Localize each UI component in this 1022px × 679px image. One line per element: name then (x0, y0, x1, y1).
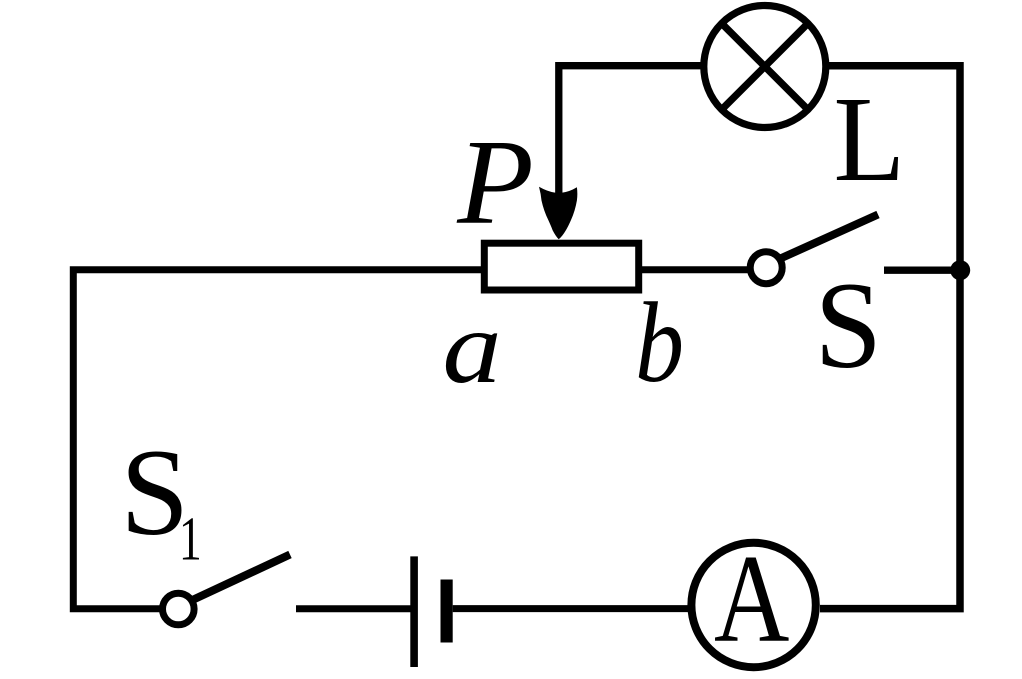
lamp L (circle with X) (704, 6, 826, 128)
junction node dot on right vertical wire (950, 260, 970, 280)
wire from lamp left terminal to slider arrow (top-left corner) (559, 66, 701, 205)
svg-text:a: a (442, 290, 501, 406)
ammeter A (circle) (691, 543, 815, 667)
svg-text:S: S (815, 257, 883, 394)
svg-text:1: 1 (179, 504, 202, 573)
switch S blade (782, 215, 879, 259)
wire from rheostat terminal b to switch S hinge (642, 266, 748, 273)
switch S hinge circle (750, 252, 782, 284)
svg-text:A: A (714, 530, 789, 669)
svg-text:L: L (834, 72, 906, 206)
wire from rheostat terminal a to left side and down to switch S1 (73, 270, 481, 609)
battery long plate (positive) (410, 556, 418, 667)
slider arrowhead of rheostat (539, 187, 577, 240)
wire from switch S contact to junction on right vertical wire (884, 267, 960, 274)
svg-text:b: b (635, 280, 684, 407)
switch S1 hinge circle (163, 593, 195, 625)
wire from lamp right terminal, down right side, to ammeter right terminal (820, 66, 960, 609)
wire from switch S1 contact to battery positive plate (296, 605, 411, 612)
battery short plate (negative) (441, 580, 453, 643)
wire from battery to ammeter left terminal (453, 605, 690, 612)
switch S1 blade (194, 555, 291, 600)
svg-text:P: P (456, 115, 534, 250)
rheostat body (rectangle) with terminals a,b (484, 243, 638, 290)
